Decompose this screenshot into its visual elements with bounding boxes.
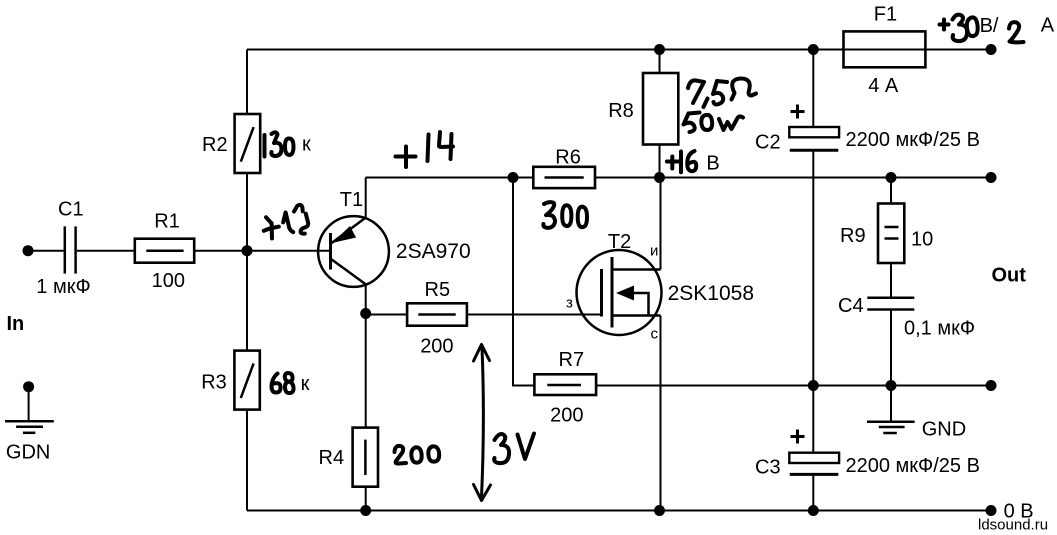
svg-text:В/: В/ xyxy=(980,15,999,37)
svg-text:200: 200 xyxy=(420,336,453,358)
svg-text:R7: R7 xyxy=(559,349,585,371)
svg-text:R3: R3 xyxy=(201,372,227,394)
svg-text:100: 100 xyxy=(152,270,185,292)
svg-text:Out: Out xyxy=(992,265,1027,287)
svg-text:1 мкФ: 1 мкФ xyxy=(36,276,90,298)
svg-text:GDN: GDN xyxy=(6,442,50,464)
svg-text:F1: F1 xyxy=(874,4,897,26)
svg-text:C4: C4 xyxy=(838,295,864,317)
svg-text:R1: R1 xyxy=(154,211,180,233)
svg-text:и: и xyxy=(650,243,658,260)
svg-text:R5: R5 xyxy=(425,279,451,301)
svg-text:C3: C3 xyxy=(755,457,781,479)
svg-text:R2: R2 xyxy=(202,134,228,156)
svg-text:C1: C1 xyxy=(58,199,84,221)
svg-text:к: к xyxy=(301,373,310,395)
svg-text:10: 10 xyxy=(911,229,933,251)
svg-text:C2: C2 xyxy=(755,132,781,154)
svg-text:GND: GND xyxy=(922,419,966,441)
svg-text:2SK1058: 2SK1058 xyxy=(668,282,754,305)
svg-text:0,1 мкФ: 0,1 мкФ xyxy=(904,318,975,340)
svg-text:2200 мкФ/25 В: 2200 мкФ/25 В xyxy=(846,455,980,477)
svg-text:R9: R9 xyxy=(840,225,866,247)
svg-text:А: А xyxy=(1041,15,1055,37)
svg-text:В: В xyxy=(706,153,719,175)
svg-text:ldsound.ru: ldsound.ru xyxy=(978,517,1048,534)
svg-text:R4: R4 xyxy=(319,447,345,469)
svg-text:200: 200 xyxy=(550,405,583,427)
svg-text:2SA970: 2SA970 xyxy=(396,240,471,263)
svg-text:с: с xyxy=(651,326,659,343)
svg-text:з: з xyxy=(566,295,573,312)
svg-text:4 А: 4 А xyxy=(868,75,899,97)
svg-text:R6: R6 xyxy=(555,147,581,169)
svg-text:In: In xyxy=(7,313,25,335)
svg-text:R8: R8 xyxy=(608,100,634,122)
svg-text:T1: T1 xyxy=(340,189,363,211)
svg-text:T2: T2 xyxy=(608,231,631,253)
svg-text:2200 мкФ/25 В: 2200 мкФ/25 В xyxy=(846,129,980,151)
svg-text:к: к xyxy=(302,134,311,156)
